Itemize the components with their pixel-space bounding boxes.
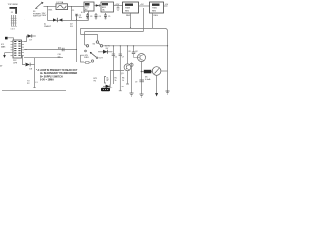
svg-text:+: + bbox=[111, 87, 112, 89]
long serial wire bbox=[24, 57, 63, 59]
cap C9 bbox=[135, 80, 144, 84]
wire reg1 to reg2 bbox=[139, 5, 150, 7]
svg-text:1k: 1k bbox=[122, 80, 124, 82]
svg-text:C8: C8 bbox=[128, 51, 130, 53]
svg-text:C5: C5 bbox=[108, 16, 110, 18]
ground mid leg bbox=[140, 94, 144, 97]
svg-text:D8: D8 bbox=[30, 68, 32, 70]
switch S2 pole top bbox=[96, 41, 98, 43]
cap drop C8 bbox=[128, 45, 135, 53]
svg-text:230V: 230V bbox=[42, 15, 47, 17]
junction block bbox=[5, 37, 8, 40]
dark battery pill bbox=[101, 88, 110, 91]
bus to right loop bbox=[152, 28, 167, 92]
meter M1 bbox=[145, 67, 161, 81]
bottom rail bbox=[2, 90, 66, 92]
connector J1 body bbox=[10, 7, 18, 14]
lower switch S3 bbox=[86, 52, 104, 60]
svg-text:REG: REG bbox=[152, 10, 157, 12]
MOV drop wire bbox=[46, 7, 48, 21]
svg-text:C9: C9 bbox=[135, 82, 137, 84]
fuse F1 box bbox=[56, 4, 68, 10]
svg-text:+12V: +12V bbox=[115, 4, 120, 6]
svg-text:D7: D7 bbox=[30, 40, 32, 42]
drop to lower AC wire bbox=[70, 7, 72, 21]
resistor R9 dark body bbox=[144, 70, 152, 74]
wire AC top bbox=[44, 6, 57, 8]
mid leg bbox=[119, 46, 122, 91]
bus wire +9V bbox=[80, 28, 152, 40]
diode D5 bbox=[103, 85, 112, 89]
svg-text:REG: REG bbox=[154, 15, 159, 17]
svg-text:7805: 7805 bbox=[152, 8, 158, 10]
switch output wire bbox=[103, 45, 168, 47]
svg-text:C7: C7 bbox=[122, 57, 124, 59]
bridge module box bbox=[101, 2, 114, 12]
diode D1 between modules bbox=[94, 4, 101, 7]
switch S2 lever bbox=[98, 43, 100, 45]
IC1 body bbox=[11, 40, 25, 58]
svg-text:1k: 1k bbox=[115, 80, 117, 82]
wire fuse to module bbox=[68, 6, 85, 8]
transistor Q1 bbox=[121, 45, 131, 84]
bus wire +5V bbox=[84, 32, 143, 46]
connector J1 top view label bbox=[8, 4, 18, 6]
wire to IC top bbox=[8, 38, 14, 40]
connector cable wires bbox=[11, 15, 17, 30]
battery symbol bbox=[105, 77, 110, 84]
svg-text:C3: C3 bbox=[90, 16, 92, 18]
svg-text:* A LOOP IS PRESENT TO READ OU: * A LOOP IS PRESENT TO READ OUT bbox=[36, 69, 78, 72]
ground left of IC bbox=[5, 53, 11, 55]
svg-text:0 6V: 0 6V bbox=[81, 12, 86, 14]
long vertical from AC bbox=[76, 20, 78, 62]
svg-text:REG: REG bbox=[125, 10, 130, 12]
bus drop from IC2 bbox=[130, 13, 132, 28]
cap on serial wire bbox=[24, 47, 77, 58]
meter to ground bbox=[156, 75, 158, 93]
transformer secondary stub bbox=[81, 11, 89, 20]
svg-text:7809: 7809 bbox=[125, 8, 131, 10]
svg-text:C6: C6 bbox=[115, 57, 117, 59]
battery plus riser bbox=[111, 70, 125, 84]
terminal T2 bbox=[91, 60, 93, 62]
svg-text:AL SECONDARY TRANSFORMER: AL SECONDARY TRANSFORMER bbox=[40, 72, 78, 75]
resistor R9 node bbox=[141, 71, 143, 73]
svg-text:Q1: Q1 bbox=[121, 73, 124, 75]
sense divider leg bbox=[112, 46, 115, 84]
wire bridge to reg1 bbox=[114, 5, 123, 7]
+5V output stub bbox=[164, 4, 169, 6]
cap C11 under +12V wire bbox=[117, 6, 120, 11]
right leg ground bbox=[166, 91, 170, 94]
caps under supply modules bbox=[86, 13, 110, 19]
transistor Q2 bbox=[134, 51, 146, 62]
bus drop from IC3 bbox=[151, 13, 153, 28]
resistor R4 bbox=[84, 62, 91, 64]
svg-text:10n: 10n bbox=[58, 57, 61, 59]
bus drop between regs bbox=[142, 8, 144, 32]
emitter wire down bbox=[141, 61, 143, 72]
svg-text:C4: C4 bbox=[99, 16, 101, 18]
svg-text:MAX: MAX bbox=[1, 45, 6, 48]
svg-text:0-1mA: 0-1mA bbox=[145, 78, 151, 81]
serial port drop bbox=[34, 58, 36, 87]
diode on IC bottom bbox=[22, 55, 34, 70]
svg-text:B= SUPPLY SWITCH: B= SUPPLY SWITCH bbox=[40, 77, 63, 79]
svg-text:CPE: CPE bbox=[13, 62, 18, 64]
switch S2 common bbox=[100, 45, 102, 47]
svg-text:TOP VIEW: TOP VIEW bbox=[8, 4, 18, 6]
svg-text:1 2 3: 1 2 3 bbox=[11, 28, 15, 30]
ground left leg bbox=[130, 93, 134, 96]
switch S2 pole left bbox=[86, 45, 88, 47]
svg-text:SWITCH: SWITCH bbox=[33, 16, 41, 18]
left bias resistor leg bbox=[131, 63, 133, 94]
diode D4 bbox=[98, 50, 113, 54]
switch S1 lever bbox=[33, 2, 44, 18]
svg-text:REG: REG bbox=[126, 15, 131, 17]
lower AC wire with diodes bbox=[44, 18, 89, 28]
note text block bbox=[36, 69, 78, 82]
wire node to meter bbox=[142, 71, 153, 73]
cap C2 on AC wire bbox=[75, 14, 82, 20]
jack bracket bbox=[81, 55, 85, 62]
diode on IC right top bbox=[24, 34, 36, 41]
module TR1 box bbox=[84, 2, 94, 11]
terminal T1 bbox=[85, 50, 87, 52]
svg-text:10n: 10n bbox=[79, 17, 82, 19]
regulator IC2 box bbox=[123, 2, 139, 17]
svg-text:1N4007: 1N4007 bbox=[44, 26, 52, 28]
regulator IC3 box bbox=[150, 2, 164, 17]
svg-text:L1: L1 bbox=[36, 82, 38, 84]
svg-text:0-5V = 10MA: 0-5V = 10MA bbox=[40, 79, 54, 82]
